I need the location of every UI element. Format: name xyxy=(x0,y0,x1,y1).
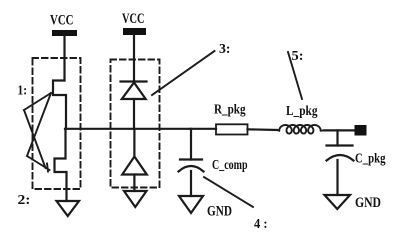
capacitor C_pkg top plate xyxy=(327,144,353,146)
wire pulldown to ground xyxy=(65,189,67,201)
svg-text:5:: 5: xyxy=(292,48,304,63)
svg-text:VCC: VCC xyxy=(122,11,145,27)
power clamp diode D1 xyxy=(122,83,146,100)
ground (C_comp) xyxy=(179,196,203,213)
capacitor C_comp curved plate xyxy=(179,166,204,172)
svg-text:GND: GND xyxy=(207,204,232,220)
svg-text:C_pkg: C_pkg xyxy=(355,152,386,167)
wire resistor to inductor xyxy=(248,128,278,131)
leader arrow from 1: to pulldown gate xyxy=(24,110,50,172)
ground (buffer) xyxy=(57,201,80,216)
wire VCC2 to power clamp xyxy=(133,35,135,81)
C_comp branch wire xyxy=(190,129,192,160)
inductor L_pkg xyxy=(278,125,324,134)
leader line 3: to clamp diodes xyxy=(152,51,215,95)
svg-text:2:: 2: xyxy=(18,193,31,208)
VCC rail bar (right) xyxy=(123,28,146,35)
C_pkg branch wire xyxy=(336,130,338,145)
wire inductor to pad xyxy=(325,129,355,131)
pad terminal (black square) xyxy=(355,125,367,136)
svg-text:4 :: 4 : xyxy=(254,216,268,231)
power clamp diode D1 cathode bar xyxy=(121,80,147,82)
wire D2 to ground xyxy=(133,175,135,192)
dashed box: clamp diodes xyxy=(111,60,160,188)
svg-text:R_pkg: R_pkg xyxy=(214,102,246,117)
pullup transistor Q1 (label 1:) xyxy=(53,81,66,129)
main output net wire (pad node) xyxy=(65,128,216,130)
svg-text:C_comp: C_comp xyxy=(212,158,248,173)
capacitor C_comp top plate xyxy=(180,158,202,160)
svg-text:3:: 3: xyxy=(219,41,231,56)
gnd clamp diode D2 anode wire xyxy=(133,129,135,157)
svg-text:VCC: VCC xyxy=(50,13,74,29)
leader arrow from 2: to pullup gate xyxy=(24,93,51,156)
dashed box: output buffer (pullup/pulldown) xyxy=(33,58,81,189)
leader line 4: to C_comp xyxy=(204,177,253,207)
pulldown transistor Q2 (label 2:) xyxy=(55,129,67,189)
ground (clamp) xyxy=(124,191,147,207)
VCC rail bar (left) xyxy=(52,30,77,36)
svg-text:GND: GND xyxy=(355,195,381,211)
wire C_comp to ground xyxy=(190,171,192,196)
resistor R_pkg xyxy=(216,124,248,134)
svg-text:1:: 1: xyxy=(18,83,28,98)
wire VCC1 to pullup drain xyxy=(63,36,65,81)
svg-text:L_pkg: L_pkg xyxy=(286,103,318,118)
wire C_pkg to ground xyxy=(336,160,338,195)
ground (C_pkg) xyxy=(325,195,351,209)
capacitor C_pkg curved plate xyxy=(327,155,354,161)
leader line 5: to package xyxy=(288,52,302,99)
wire D1 to pad node xyxy=(133,99,135,129)
gnd clamp diode D2 xyxy=(122,157,147,175)
